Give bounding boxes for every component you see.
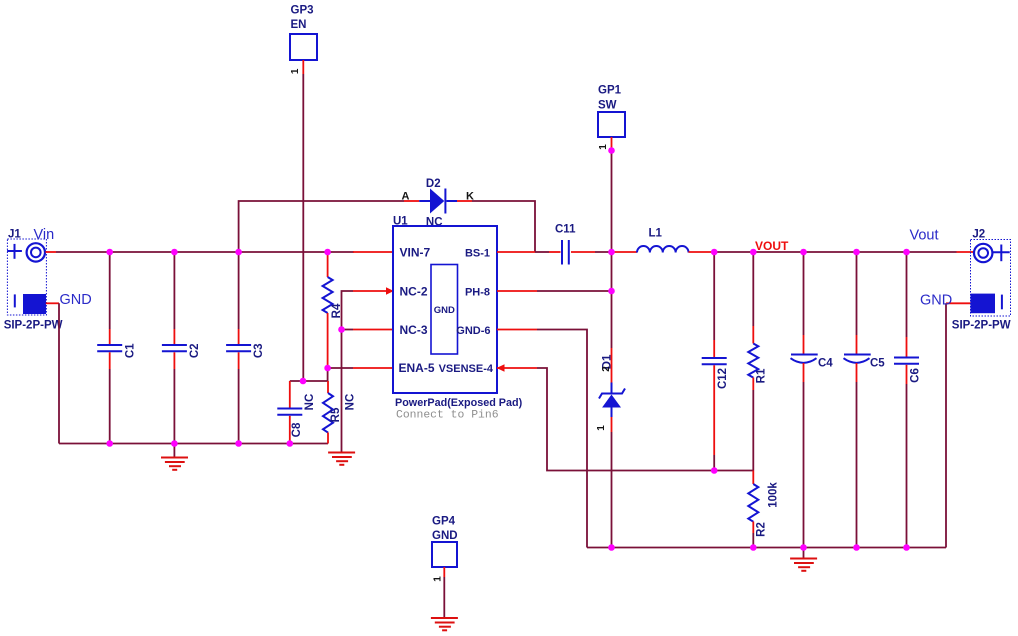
svg-text:NC: NC — [304, 394, 316, 411]
svg-text:VOUT: VOUT — [755, 239, 789, 253]
wire NC net down to ground — [341, 330, 343, 452]
junction dots — [106, 249, 113, 256]
wire VIN-7 pin — [353, 251, 393, 253]
svg-text:R5: R5 — [330, 407, 342, 422]
arrow into NC-2 — [386, 287, 394, 294]
wire J1 gnd down — [58, 303, 60, 443]
svg-text:1: 1 — [596, 425, 607, 431]
wire GP3 down to C8 node — [302, 74, 304, 381]
resistor R2 — [748, 471, 758, 548]
capacitor C6 — [894, 252, 919, 548]
wire SW column — [611, 151, 613, 292]
svg-text:C3: C3 — [253, 343, 265, 358]
capacitor C3 — [226, 252, 251, 444]
port GP4 / GND — [432, 542, 457, 567]
svg-text:Vin: Vin — [34, 227, 55, 243]
svg-text:1: 1 — [290, 68, 301, 74]
svg-text:D2: D2 — [426, 178, 441, 190]
resistor R1 — [748, 252, 758, 471]
wire GND-6 pin — [497, 329, 537, 331]
wire PH-8 pin — [497, 290, 537, 292]
inductor L1 — [612, 246, 715, 252]
svg-text:100k: 100k — [768, 482, 780, 508]
wire VOUT rail — [714, 251, 956, 253]
svg-text:NC: NC — [345, 394, 357, 411]
svg-text:SIP-2P-PW: SIP-2P-PW — [952, 320, 1011, 332]
capacitor C2 — [162, 252, 187, 444]
wire GP3 pin stub — [302, 60, 304, 74]
wire GP1 pin stub — [611, 137, 613, 151]
wire Vin rail — [56, 251, 354, 253]
wire output ground bus — [587, 547, 946, 549]
ground symbol (NC net) — [328, 453, 355, 465]
capacitor C11 — [562, 240, 612, 265]
connector J2 — [971, 240, 1011, 317]
svg-text:U1: U1 — [393, 216, 408, 228]
svg-text:GND: GND — [432, 530, 458, 542]
svg-text:Connect to Pin6: Connect to Pin6 — [396, 410, 499, 422]
svg-text:GP4: GP4 — [432, 516, 456, 528]
arrow into VSENSE-4 — [497, 364, 505, 371]
wire input ground bus — [59, 443, 328, 445]
svg-text:PowerPad(Exposed Pad): PowerPad(Exposed Pad) — [395, 397, 523, 409]
resistor R4 — [323, 252, 333, 368]
svg-text:C4: C4 — [818, 358, 833, 370]
capacitor C8 — [277, 381, 302, 444]
capacitor C1 — [97, 252, 122, 444]
wire C8/R5 top link — [290, 380, 328, 382]
svg-text:BS-1: BS-1 — [465, 248, 490, 260]
capacitor C5 (polarized) — [844, 252, 871, 548]
svg-text:C6: C6 — [910, 368, 922, 383]
svg-text:PH-8: PH-8 — [465, 287, 490, 299]
wire ENA junction down — [327, 368, 329, 381]
svg-text:J1: J1 — [8, 229, 21, 241]
svg-text:NC-2: NC-2 — [400, 285, 428, 299]
svg-text:Vout: Vout — [910, 228, 939, 244]
svg-text:GND: GND — [434, 305, 455, 316]
svg-text:C8: C8 — [291, 422, 303, 437]
wire D2 anode net — [239, 201, 404, 252]
svg-text:C5: C5 — [870, 358, 885, 370]
svg-text:VIN-7: VIN-7 — [400, 246, 431, 260]
ground symbol (GP4) — [431, 618, 458, 630]
wire D2 cathode to BS — [472, 201, 535, 252]
svg-text:EN: EN — [291, 19, 307, 31]
ground symbol (output bus) — [790, 548, 817, 571]
wire NC-3 pin — [342, 329, 354, 331]
svg-text:2: 2 — [601, 366, 612, 372]
port GP3 / EN — [290, 34, 317, 60]
svg-text:SW: SW — [598, 100, 617, 112]
zener diode D1 — [599, 291, 625, 548]
svg-text:GND-6: GND-6 — [456, 325, 490, 337]
ground symbol (input bus) — [161, 444, 188, 470]
resistor R5 — [323, 381, 333, 444]
svg-text:SIP-2P-PW: SIP-2P-PW — [4, 320, 63, 332]
svg-text:L1: L1 — [649, 228, 663, 240]
wire BS-1 pin — [497, 251, 535, 253]
port GP1 / SW — [598, 112, 625, 137]
svg-text:C12: C12 — [717, 368, 729, 389]
svg-text:GND: GND — [920, 293, 952, 309]
wire J1 GND pin stub — [46, 302, 59, 304]
svg-text:ENA-5: ENA-5 — [399, 361, 435, 375]
wire J1 Vin pin stub — [46, 251, 57, 253]
svg-text:VSENSE-4: VSENSE-4 — [439, 363, 494, 375]
svg-text:C1: C1 — [125, 343, 137, 358]
diode D2 — [404, 189, 472, 214]
connector J1 — [7, 239, 46, 315]
capacitor C12 — [702, 252, 727, 471]
wire ENA-5 pin — [328, 367, 353, 369]
svg-text:R1: R1 — [756, 368, 768, 383]
wire feedback net — [537, 368, 753, 471]
wire VSENSE-4 pin — [497, 367, 537, 369]
wire J2 gnd up — [945, 303, 947, 547]
op-amp U1 (regulator IC) — [393, 226, 497, 393]
wire GP4 to ground — [443, 577, 445, 617]
svg-text:1: 1 — [598, 144, 609, 150]
wire GP4 pin stub — [443, 567, 445, 577]
capacitor C4 (polarized) — [791, 252, 818, 548]
svg-text:R2: R2 — [756, 522, 768, 537]
svg-text:C2: C2 — [189, 343, 201, 358]
svg-text:1: 1 — [433, 576, 444, 582]
svg-text:GP3: GP3 — [291, 5, 314, 17]
svg-text:GND: GND — [60, 292, 92, 308]
wire NC-2 pin — [342, 291, 354, 330]
svg-text:GP1: GP1 — [598, 85, 622, 97]
svg-text:NC-3: NC-3 — [400, 323, 428, 337]
svg-text:J2: J2 — [972, 228, 985, 240]
svg-text:C11: C11 — [555, 224, 576, 236]
